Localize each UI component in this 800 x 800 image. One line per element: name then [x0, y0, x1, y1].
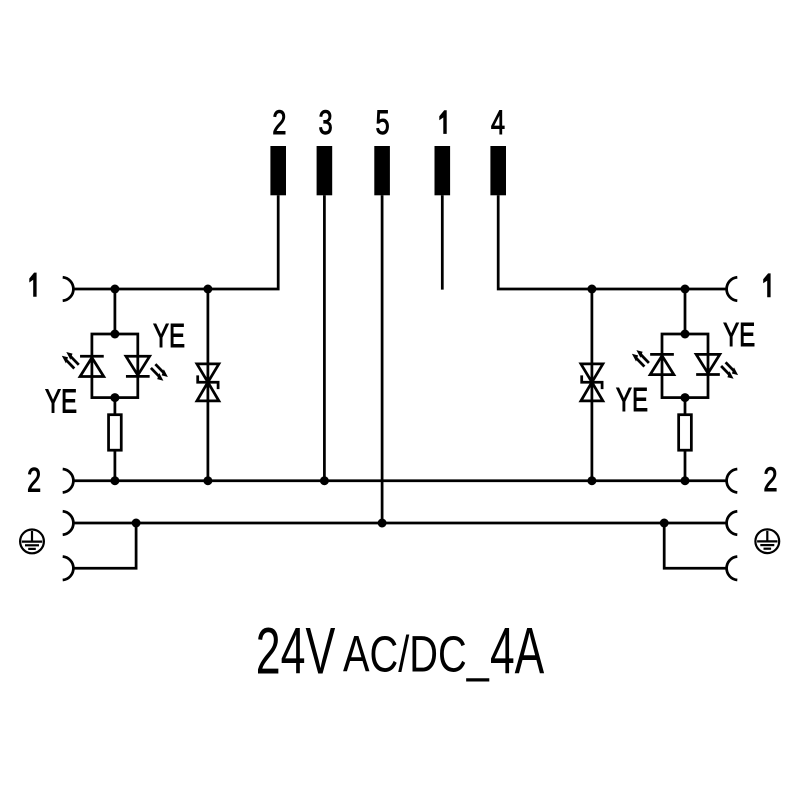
- wire row1 to TVS V2 to row2: [591, 289, 594, 481]
- svg-text:2: 2: [27, 462, 41, 499]
- label 1 right: [763, 273, 770, 297]
- wire pin4 to row1 right: [498, 195, 726, 289]
- LED D3 emission arrows: [632, 350, 649, 367]
- LED box right: [662, 334, 708, 398]
- node left box bottom: [110, 393, 119, 402]
- svg-text:YE: YE: [45, 384, 77, 421]
- node row1 right A: [587, 285, 596, 294]
- wire pin3 to row2: [323, 195, 326, 480]
- svg-text:3: 3: [319, 105, 333, 142]
- node row2 x115: [110, 476, 119, 485]
- LED D1 emission arrows: [62, 352, 79, 369]
- node row2 x592: [587, 476, 596, 485]
- wire right box to resistor R2: [684, 398, 687, 415]
- TVS suppressor V2: [581, 364, 603, 401]
- label AC/DC_: [343, 626, 489, 683]
- resistor R1: [109, 415, 122, 451]
- node row3 left: [132, 519, 141, 528]
- svg-text:AC/DC_: AC/DC_: [343, 626, 489, 683]
- svg-text:YE: YE: [616, 382, 648, 419]
- node row2 pin3: [320, 476, 329, 485]
- wire row1 to left LED box: [114, 289, 117, 334]
- svg-text:24V: 24V: [256, 614, 336, 688]
- LED D1 (left box, left, cathode up): [80, 356, 104, 376]
- svg-text:2: 2: [763, 462, 777, 499]
- node left box top: [110, 330, 119, 339]
- node right box top: [681, 330, 690, 339]
- node right box bottom: [681, 393, 690, 402]
- label 24V: [256, 614, 336, 688]
- pin 5 contact: [374, 146, 390, 195]
- PE ground symbol left: [20, 530, 44, 554]
- svg-text:4: 4: [491, 105, 505, 142]
- wire pin5 to row3: [381, 195, 384, 523]
- LED D2 emission arrows: [151, 364, 168, 381]
- wire resistor R2 to row2: [684, 450, 687, 481]
- wire row1 to TVS V1 to row2: [207, 289, 210, 481]
- terminal arc right row4: [727, 557, 738, 581]
- node row1 left A: [110, 285, 119, 294]
- wire resistor R1 to row2: [114, 450, 117, 481]
- PE ground symbol right: [755, 529, 779, 553]
- resistor R2: [679, 415, 692, 451]
- terminal arc right row2: [727, 469, 738, 493]
- terminal arc left row4: [63, 557, 74, 581]
- LED D4 emission arrows: [721, 362, 738, 379]
- LED box left: [92, 334, 138, 398]
- wire pin2 to row1 left: [74, 195, 278, 289]
- pin 3 contact: [317, 146, 333, 195]
- LED D3 (right box, left, cathode up): [650, 354, 674, 374]
- node row2 x685: [681, 476, 690, 485]
- TVS suppressor V1: [197, 364, 219, 401]
- LED D2 (left box, right, cathode down): [126, 356, 150, 376]
- terminal arc right row3: [727, 511, 738, 535]
- terminal arc left row3: [63, 511, 74, 535]
- pin 1 label: [439, 110, 446, 134]
- label 4A: [490, 614, 545, 688]
- terminal arc left row2: [63, 469, 74, 493]
- terminal arc left row1: [63, 277, 74, 301]
- svg-text:2: 2: [272, 105, 286, 142]
- svg-text:YE: YE: [153, 318, 185, 355]
- terminal arc right row1: [727, 277, 738, 301]
- wire row4 left to PE: [74, 523, 136, 568]
- pin 1 contact: [435, 146, 451, 195]
- node row1 right B: [681, 285, 690, 294]
- wire row4 right to PE: [664, 523, 726, 568]
- wire left box to resistor R1: [114, 398, 117, 415]
- wire row2 bus: [74, 479, 726, 482]
- svg-text:4A: 4A: [490, 614, 545, 688]
- node row1 left B: [203, 285, 212, 294]
- LED D4 (right box, right, cathode down): [696, 354, 720, 374]
- pin 2 contact: [270, 146, 286, 195]
- wire row1 to right LED box: [684, 289, 687, 334]
- node row3 pin5: [378, 519, 387, 528]
- svg-text:5: 5: [376, 105, 390, 142]
- node row2 x208: [203, 476, 212, 485]
- node row3 right: [660, 519, 669, 528]
- wire row3 PE bus: [74, 522, 726, 525]
- label 1 left: [29, 273, 36, 297]
- pin 4 contact: [490, 146, 506, 195]
- wire pin1 open end: [441, 195, 444, 289]
- svg-text:YE: YE: [723, 317, 755, 354]
